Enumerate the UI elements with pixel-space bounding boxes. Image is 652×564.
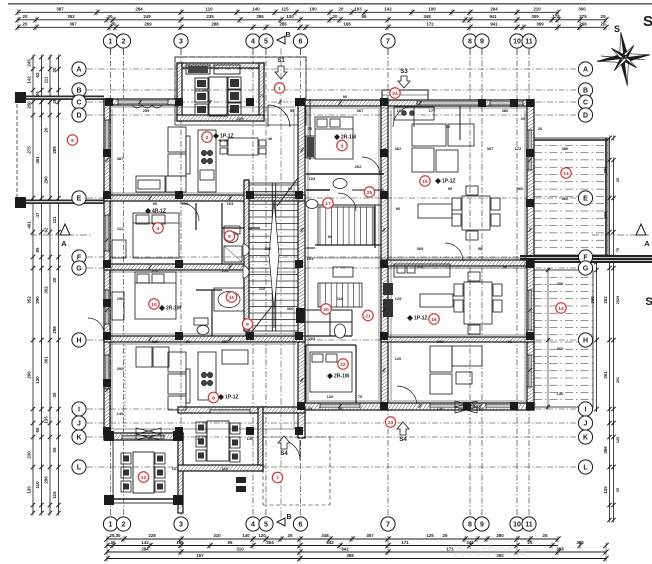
left dimension lines xyxy=(27,54,61,515)
furniture left unit bedroom1 xyxy=(112,213,242,262)
svg-text:941: 941 xyxy=(489,14,497,19)
svg-text:103: 103 xyxy=(227,201,234,206)
long bar right F/G xyxy=(520,255,652,263)
svg-text:360: 360 xyxy=(557,346,564,351)
svg-text:11: 11 xyxy=(525,39,533,46)
red room number labels xyxy=(67,83,571,483)
svg-text:361: 361 xyxy=(616,377,620,383)
svg-text:254: 254 xyxy=(266,540,274,545)
svg-text:20: 20 xyxy=(44,127,49,132)
bath fixtures upper xyxy=(224,232,238,243)
inner face lines xyxy=(110,107,527,429)
svg-text:7: 7 xyxy=(276,475,279,481)
svg-text:140: 140 xyxy=(242,533,250,538)
svg-text:310: 310 xyxy=(236,547,244,552)
porch S3 xyxy=(382,90,428,100)
compass rose xyxy=(597,32,650,86)
svg-text:K: K xyxy=(583,435,588,442)
svg-text:3: 3 xyxy=(341,143,344,149)
svg-text:I: I xyxy=(78,407,80,414)
svg-text:21: 21 xyxy=(365,313,371,319)
right dimension lines xyxy=(590,135,620,522)
svg-text:842: 842 xyxy=(341,547,349,552)
svg-text:+0.00: +0.00 xyxy=(218,138,229,143)
exterior wall left xyxy=(104,99,110,438)
patio outline xyxy=(263,436,330,438)
svg-text:2: 2 xyxy=(122,522,126,529)
grid bubbles right xyxy=(578,62,592,76)
svg-text:B: B xyxy=(286,514,291,521)
svg-text:25: 25 xyxy=(521,116,526,121)
svg-text:70: 70 xyxy=(308,126,313,131)
svg-text:95: 95 xyxy=(228,540,233,545)
svg-text:G: G xyxy=(583,266,589,273)
svg-text:1P-1Z: 1P-1Z xyxy=(225,395,239,401)
svg-text:288: 288 xyxy=(229,108,236,113)
svg-text:100: 100 xyxy=(309,6,317,11)
svg-text:298: 298 xyxy=(52,326,57,334)
svg-text:142: 142 xyxy=(141,540,149,545)
svg-text:92: 92 xyxy=(248,226,253,231)
svg-text:228: 228 xyxy=(148,533,156,538)
wall x178 vertical xyxy=(178,433,183,513)
svg-text:110: 110 xyxy=(222,466,229,471)
kitchen left upper xyxy=(198,130,216,192)
svg-text:2R-1M: 2R-1M xyxy=(334,374,349,380)
svg-text:L: L xyxy=(77,465,82,472)
svg-text:135: 135 xyxy=(27,486,32,494)
top terrace walls xyxy=(177,63,264,68)
svg-text:20: 20 xyxy=(339,6,344,11)
svg-text:275: 275 xyxy=(27,146,32,154)
svg-text:100: 100 xyxy=(428,6,436,11)
svg-text:20: 20 xyxy=(333,14,338,19)
svg-text:177: 177 xyxy=(429,108,436,113)
svg-text:95: 95 xyxy=(362,14,367,19)
svg-text:55: 55 xyxy=(308,406,313,411)
svg-text:388: 388 xyxy=(556,547,564,552)
svg-text:95: 95 xyxy=(288,186,293,191)
svg-text:S4: S4 xyxy=(399,437,407,443)
svg-text:387: 387 xyxy=(56,6,64,11)
svg-text:2R-1M: 2R-1M xyxy=(341,135,356,141)
svg-text:120: 120 xyxy=(258,533,266,538)
svg-text:17: 17 xyxy=(325,201,331,207)
svg-text:201: 201 xyxy=(307,256,314,261)
svg-text:380: 380 xyxy=(576,540,584,545)
stair right unit upper xyxy=(318,207,374,245)
wall row F/G left xyxy=(104,264,249,270)
svg-text:E: E xyxy=(77,196,82,203)
svg-text:96: 96 xyxy=(503,264,508,269)
svg-text:387: 387 xyxy=(117,156,124,161)
svg-text:168: 168 xyxy=(343,21,351,26)
svg-text:362: 362 xyxy=(395,146,402,151)
svg-text:294: 294 xyxy=(490,6,498,11)
svg-text:2: 2 xyxy=(206,135,209,141)
stair left unit xyxy=(243,178,305,334)
svg-text:70: 70 xyxy=(358,394,363,399)
svg-text:24: 24 xyxy=(392,91,398,97)
svg-text:360: 360 xyxy=(287,306,294,311)
svg-text:6: 6 xyxy=(71,138,74,144)
svg-text:90: 90 xyxy=(153,201,158,206)
svg-text:C: C xyxy=(76,100,81,107)
svg-text:5: 5 xyxy=(228,234,231,240)
interior partitions xyxy=(196,99,460,403)
corridor fixtures left of stair xyxy=(243,244,249,256)
svg-text:3: 3 xyxy=(179,522,183,529)
wall x382 (right unit left) xyxy=(381,99,388,410)
ceiling symbols xyxy=(136,428,161,440)
svg-text:20: 20 xyxy=(111,540,116,545)
furniture left unit bedroom2 (rows G-H) xyxy=(112,272,244,335)
svg-text:245: 245 xyxy=(27,59,32,67)
svg-text:46: 46 xyxy=(268,136,273,141)
svg-text:14: 14 xyxy=(558,306,564,312)
svg-text:6: 6 xyxy=(299,522,303,529)
svg-text:357: 357 xyxy=(366,533,374,538)
svg-text:90: 90 xyxy=(448,186,453,191)
svg-text:B: B xyxy=(583,88,588,95)
svg-text:172: 172 xyxy=(426,21,434,26)
svg-text:2R-1M: 2R-1M xyxy=(166,306,181,312)
svg-text:130: 130 xyxy=(286,14,294,19)
svg-text:55: 55 xyxy=(290,108,295,113)
section marker B top xyxy=(277,36,285,44)
svg-text:142: 142 xyxy=(27,76,32,84)
svg-text:292: 292 xyxy=(117,366,124,371)
svg-text:380: 380 xyxy=(502,108,509,113)
svg-text:110: 110 xyxy=(417,264,424,269)
exterior wall top (middle+right) xyxy=(300,100,534,106)
svg-text:167: 167 xyxy=(196,553,204,558)
svg-text:K: K xyxy=(76,435,81,442)
svg-text:286: 286 xyxy=(279,21,287,26)
svg-text:98: 98 xyxy=(478,246,483,251)
svg-text:16: 16 xyxy=(431,317,437,323)
svg-text:167: 167 xyxy=(172,466,179,471)
svg-text:55: 55 xyxy=(616,488,620,492)
section A-A left marker xyxy=(30,234,92,236)
svg-text:360: 360 xyxy=(590,296,595,304)
svg-text:259: 259 xyxy=(222,339,229,344)
wall row E xyxy=(104,195,305,201)
svg-text:275: 275 xyxy=(579,14,587,19)
svg-text:L: L xyxy=(583,465,588,472)
svg-text:96: 96 xyxy=(396,206,401,211)
svg-text:5: 5 xyxy=(264,522,268,529)
top terrace dashed roof outline xyxy=(175,57,306,125)
furniture top terrace xyxy=(186,65,241,116)
bed lower middle xyxy=(310,352,352,392)
svg-text:300: 300 xyxy=(578,6,586,11)
svg-text:249: 249 xyxy=(143,14,151,19)
svg-text:115: 115 xyxy=(281,6,289,11)
windows xyxy=(105,100,533,440)
svg-text:352: 352 xyxy=(67,14,75,19)
wall row H left xyxy=(104,336,305,342)
svg-text:20: 20 xyxy=(108,14,113,19)
grid axis lines xyxy=(87,49,578,516)
svg-text:8: 8 xyxy=(468,39,472,46)
svg-text:30: 30 xyxy=(52,392,57,397)
svg-text:3: 3 xyxy=(179,39,183,46)
left terrace outline xyxy=(17,96,104,101)
section A-A right marker xyxy=(592,234,650,236)
svg-text:250: 250 xyxy=(27,101,32,109)
svg-text:I: I xyxy=(585,407,587,414)
bottom-left terrace xyxy=(113,440,178,503)
furniture right unit upper living xyxy=(394,107,500,240)
svg-text:S: S xyxy=(614,24,620,34)
svg-text:171: 171 xyxy=(401,540,409,545)
svg-text:4: 4 xyxy=(157,226,160,232)
level labels xyxy=(145,133,456,401)
furniture bottom middle room table set xyxy=(196,421,240,462)
svg-text:203: 203 xyxy=(309,336,316,341)
svg-text:7: 7 xyxy=(386,522,390,529)
svg-text:B: B xyxy=(76,88,81,95)
svg-text:111: 111 xyxy=(117,226,124,231)
svg-text:10: 10 xyxy=(151,302,157,308)
svg-text:23: 23 xyxy=(388,420,394,426)
svg-text:25: 25 xyxy=(616,178,620,182)
svg-text:S1: S1 xyxy=(277,58,285,64)
svg-text:S: S xyxy=(645,296,652,308)
bottom middle room xyxy=(258,407,263,471)
svg-text:25,30: 25,30 xyxy=(110,533,122,538)
svg-text:90: 90 xyxy=(186,339,191,344)
right upper terrace deck xyxy=(534,138,608,410)
bathtub xyxy=(214,288,244,311)
svg-text:20: 20 xyxy=(111,21,116,26)
svg-text:205: 205 xyxy=(237,116,244,121)
bottom wall right unit xyxy=(298,403,534,410)
svg-text:Westhome: Westhome xyxy=(450,540,530,561)
svg-text:E: E xyxy=(583,196,588,203)
svg-text:J: J xyxy=(584,421,588,428)
svg-text:135: 135 xyxy=(603,486,608,494)
svg-text:120: 120 xyxy=(395,356,402,361)
building walls xyxy=(15,57,652,513)
svg-text:284: 284 xyxy=(135,6,143,11)
svg-text:47: 47 xyxy=(35,212,40,217)
svg-text:75: 75 xyxy=(616,248,620,252)
furniture right unit bedroom xyxy=(306,117,353,159)
corridor lines xyxy=(306,204,381,206)
right lower terrace deck xyxy=(534,270,593,407)
svg-text:259: 259 xyxy=(143,108,150,113)
svg-text:290: 290 xyxy=(117,296,124,301)
svg-text:S4: S4 xyxy=(280,451,288,457)
svg-text:1: 1 xyxy=(109,522,113,529)
svg-text:111: 111 xyxy=(52,216,57,223)
svg-text:135: 135 xyxy=(44,416,49,424)
svg-text:98: 98 xyxy=(328,234,333,239)
svg-text:8: 8 xyxy=(212,395,215,401)
svg-text:172: 172 xyxy=(515,146,522,151)
exterior wall top-left xyxy=(104,99,179,105)
svg-text:H: H xyxy=(583,338,588,345)
svg-text:386: 386 xyxy=(603,446,608,454)
grid bubbles left xyxy=(72,62,86,76)
svg-text:228: 228 xyxy=(152,339,159,344)
wall under terrace row D xyxy=(177,115,264,121)
svg-text:352: 352 xyxy=(27,296,32,304)
svg-text:G: G xyxy=(76,266,82,273)
svg-text:289: 289 xyxy=(52,146,57,154)
svg-text:20: 20 xyxy=(23,14,28,19)
furniture left unit upper living xyxy=(132,105,266,192)
svg-text:110: 110 xyxy=(259,286,266,291)
svg-text:55: 55 xyxy=(35,427,40,432)
svg-text:10: 10 xyxy=(513,522,521,529)
svg-text:12: 12 xyxy=(141,475,147,481)
svg-text:10: 10 xyxy=(513,39,521,46)
svg-text:580: 580 xyxy=(265,246,272,251)
svg-text:2: 2 xyxy=(122,39,126,46)
svg-text:20: 20 xyxy=(601,21,606,26)
svg-text:B: B xyxy=(285,32,290,39)
party wall xyxy=(298,99,305,438)
bottom dimension lines xyxy=(104,533,608,562)
svg-text:369: 369 xyxy=(417,246,424,251)
svg-text:380: 380 xyxy=(562,146,569,151)
svg-text:175: 175 xyxy=(552,14,560,19)
svg-text:A: A xyxy=(644,239,650,248)
svg-text:22: 22 xyxy=(340,362,346,368)
svg-text:296: 296 xyxy=(44,476,49,484)
svg-text:20: 20 xyxy=(23,21,28,26)
wall right unit divider xyxy=(381,260,534,266)
svg-text:295: 295 xyxy=(256,14,264,19)
svg-text:6: 6 xyxy=(299,39,303,46)
svg-text:296: 296 xyxy=(27,371,32,379)
svg-text:259: 259 xyxy=(182,201,189,206)
page top border xyxy=(8,3,652,5)
svg-text:H: H xyxy=(76,338,81,345)
svg-text:361: 361 xyxy=(603,371,608,379)
svg-text:352: 352 xyxy=(44,286,49,294)
svg-text:348: 348 xyxy=(321,533,329,538)
shower xyxy=(224,246,242,262)
wall row H right xyxy=(381,337,534,342)
svg-text:25: 25 xyxy=(367,190,373,196)
svg-text:9: 9 xyxy=(480,39,484,46)
svg-text:20: 20 xyxy=(52,67,57,72)
svg-text:102: 102 xyxy=(397,108,404,113)
svg-text:268: 268 xyxy=(477,406,484,411)
svg-text:140: 140 xyxy=(247,436,254,441)
svg-text:125: 125 xyxy=(426,533,434,538)
furniture left unit lower living xyxy=(125,345,248,428)
svg-text:20: 20 xyxy=(446,124,451,129)
svg-text:310: 310 xyxy=(213,533,221,538)
svg-text:5: 5 xyxy=(264,39,268,46)
svg-text:352: 352 xyxy=(603,296,608,304)
svg-text:125: 125 xyxy=(616,437,620,443)
svg-text:103: 103 xyxy=(309,176,316,181)
svg-text:842: 842 xyxy=(326,540,334,545)
svg-text:13: 13 xyxy=(563,171,569,177)
svg-text:360: 360 xyxy=(562,196,569,201)
svg-text:1P-1Z: 1P-1Z xyxy=(442,179,456,185)
svg-text:90: 90 xyxy=(343,94,348,99)
svg-text:284: 284 xyxy=(141,547,149,552)
small wall ticks xyxy=(105,100,532,409)
svg-text:70: 70 xyxy=(260,93,265,98)
svg-text:1P-1Z: 1P-1Z xyxy=(414,316,428,322)
svg-text:D: D xyxy=(76,113,81,120)
svg-text:C: C xyxy=(583,100,588,107)
svg-text:130: 130 xyxy=(437,406,444,411)
section B-B line xyxy=(280,48,282,518)
svg-text:98: 98 xyxy=(338,406,343,411)
svg-text:4: 4 xyxy=(251,522,255,529)
svg-text:55: 55 xyxy=(52,447,57,452)
svg-text:15: 15 xyxy=(422,179,428,185)
svg-text:388: 388 xyxy=(346,553,354,558)
svg-text:62: 62 xyxy=(35,72,40,77)
svg-text:20: 20 xyxy=(52,277,57,282)
svg-text:290: 290 xyxy=(44,176,49,184)
grid bubbles top xyxy=(72,32,593,531)
svg-text:165: 165 xyxy=(176,540,184,545)
curtain top wall xyxy=(132,105,162,108)
svg-text:103: 103 xyxy=(354,6,362,11)
svg-text:110: 110 xyxy=(205,6,213,11)
svg-text:348: 348 xyxy=(423,14,431,19)
svg-text:S3: S3 xyxy=(400,69,408,75)
wc mid xyxy=(333,179,347,189)
kitchen counter lower right xyxy=(394,264,450,277)
svg-text:4: 4 xyxy=(251,39,255,46)
svg-text:262: 262 xyxy=(355,164,362,169)
svg-text:95: 95 xyxy=(148,436,153,441)
svg-text:130: 130 xyxy=(35,376,40,384)
svg-text:125: 125 xyxy=(395,296,402,301)
svg-text:290: 290 xyxy=(35,296,40,304)
svg-text:D: D xyxy=(583,113,588,120)
svg-text:A: A xyxy=(76,67,81,74)
svg-text:110: 110 xyxy=(35,481,40,489)
door arcs xyxy=(88,105,463,460)
svg-text:401: 401 xyxy=(27,221,32,229)
svg-text:230: 230 xyxy=(27,451,32,459)
svg-text:110: 110 xyxy=(337,296,344,301)
svg-text:25: 25 xyxy=(443,533,448,538)
svg-text:4R-1Z: 4R-1Z xyxy=(152,209,166,215)
bottom wall left unit I row xyxy=(178,407,305,413)
stair arrow diamond xyxy=(269,200,279,310)
svg-text:S: S xyxy=(643,13,652,30)
svg-text:142: 142 xyxy=(384,6,392,11)
svg-text:140: 140 xyxy=(252,6,260,11)
svg-text:300: 300 xyxy=(557,281,564,286)
svg-text:A: A xyxy=(61,239,67,248)
svg-text:280: 280 xyxy=(496,533,504,538)
svg-text:367: 367 xyxy=(357,108,364,113)
section marker B bottom xyxy=(277,518,285,526)
svg-text:2929: 2929 xyxy=(616,296,620,304)
svg-text:120: 120 xyxy=(327,394,334,399)
svg-text:11: 11 xyxy=(525,522,533,529)
svg-text:367: 367 xyxy=(69,21,77,26)
svg-text:20: 20 xyxy=(538,126,543,131)
svg-text:25: 25 xyxy=(288,533,293,538)
svg-text:220: 220 xyxy=(152,268,159,273)
